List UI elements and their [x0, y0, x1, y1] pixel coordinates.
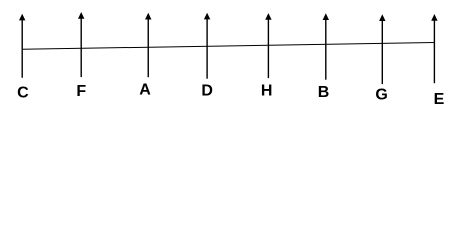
svg-text:B: B: [318, 84, 330, 101]
arrow F: [78, 12, 84, 77]
arrow G: [379, 14, 385, 84]
svg-text:A: A: [139, 82, 151, 99]
arrow H: [265, 13, 271, 78]
arrow E: [431, 14, 437, 83]
arrow B: [323, 13, 329, 79]
svg-text:C: C: [17, 84, 29, 101]
svg-text:H: H: [261, 82, 273, 99]
slanted baseline: [22, 43, 434, 50]
svg-text:F: F: [76, 83, 86, 100]
svg-text:D: D: [201, 83, 213, 100]
arrow D: [204, 13, 210, 79]
arrow A: [145, 13, 151, 77]
svg-text:G: G: [375, 87, 387, 104]
svg-text:E: E: [434, 91, 445, 108]
arrow C: [19, 14, 25, 78]
